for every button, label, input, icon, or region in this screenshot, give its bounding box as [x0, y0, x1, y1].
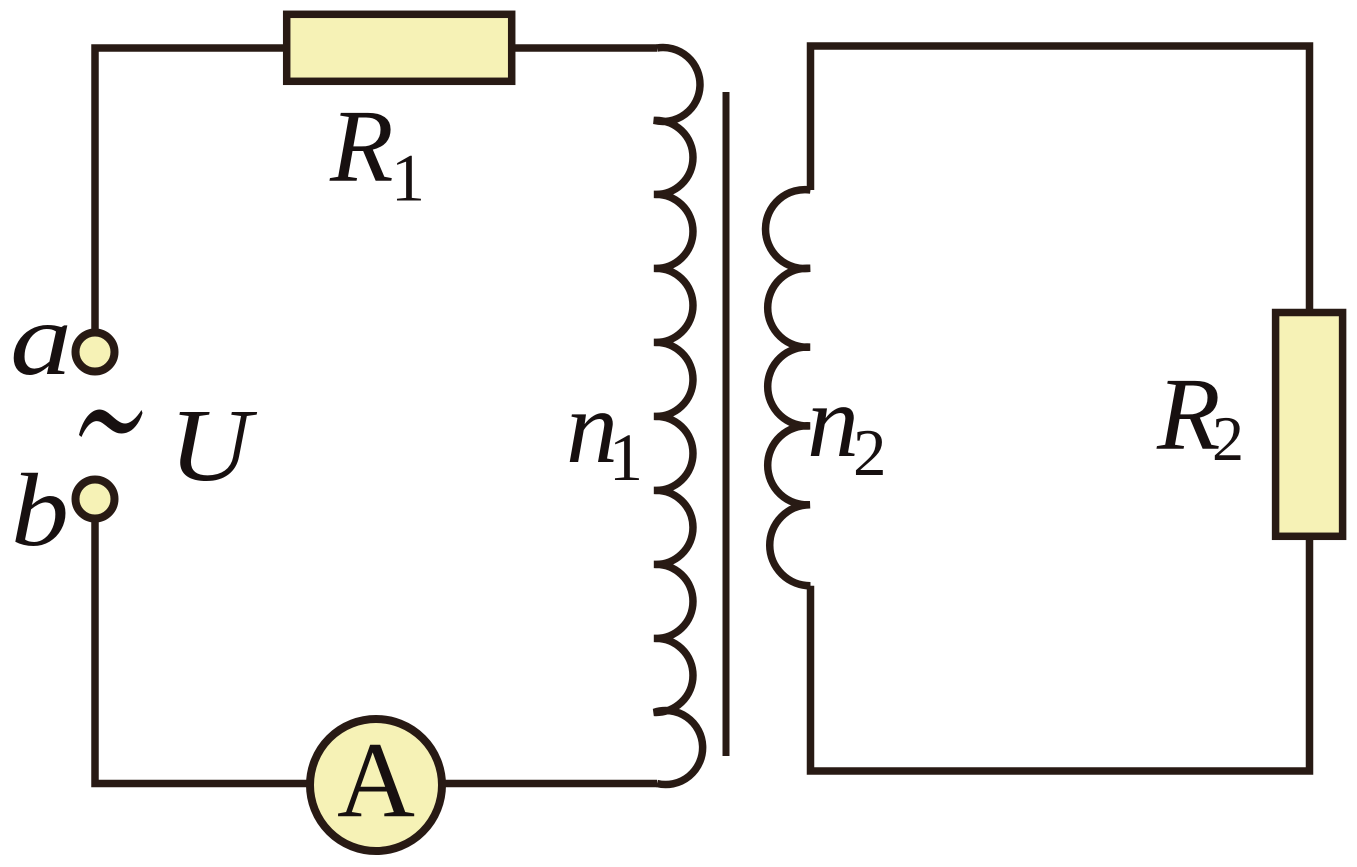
svg-text:1: 1 [609, 419, 643, 495]
svg-text:1: 1 [391, 140, 425, 216]
svg-text:R: R [329, 89, 394, 204]
svg-text:a: a [10, 282, 72, 397]
svg-text:A: A [337, 721, 415, 840]
svg-text:U: U [169, 388, 257, 503]
svg-text:n: n [807, 364, 859, 479]
svg-text:b: b [11, 453, 69, 568]
svg-text:R: R [1156, 357, 1221, 472]
svg-text:2: 2 [853, 416, 887, 490]
svg-text:2: 2 [1212, 403, 1244, 474]
